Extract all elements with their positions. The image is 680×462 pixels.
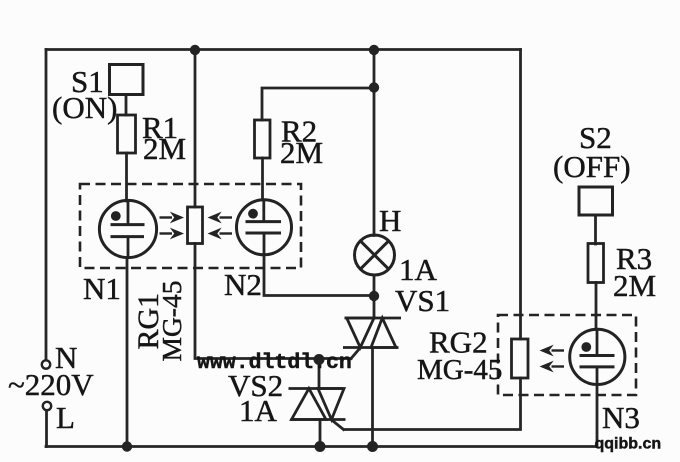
svg-text:N2: N2: [224, 267, 262, 302]
photoresistor RG2: [512, 339, 529, 378]
neon lamp N3: [570, 329, 625, 384]
wire R3 to N3: [595, 283, 598, 330]
svg-text:H: H: [379, 203, 401, 238]
node junction R2 wire: [369, 82, 379, 92]
wire left bus upper: [45, 50, 48, 361]
wire S1 to R1: [125, 95, 128, 116]
svg-text:MG-45: MG-45: [417, 354, 502, 386]
svg-text:qqibb.cn: qqibb.cn: [595, 436, 662, 453]
svg-text:MG-45: MG-45: [156, 281, 187, 362]
node junction bottom VS1: [367, 441, 378, 452]
wire R2 to N2: [261, 158, 264, 200]
triac VS2: [289, 389, 346, 420]
svg-text:1A: 1A: [399, 252, 438, 287]
terminal L circle: [43, 402, 51, 410]
wire right branch vertical: [519, 50, 522, 340]
resistor R2: [255, 120, 271, 158]
arrows N1 to RG1: [160, 212, 185, 240]
node junction top middle: [369, 45, 379, 55]
switch S1 box: [110, 65, 144, 95]
wire RG1 upper: [194, 50, 197, 208]
wire middle vertical upper: [373, 50, 376, 236]
svg-text:2M: 2M: [143, 131, 186, 166]
wire RG2 bottom lead: [344, 378, 520, 430]
resistor R3: [588, 244, 604, 283]
svg-text:2M: 2M: [613, 268, 656, 303]
arrows N3 to RG2: [540, 345, 565, 373]
neon lamp N1: [99, 200, 156, 257]
wire VS1 bottom lead: [371, 348, 374, 447]
switch S2 box: [579, 187, 613, 215]
svg-text:~220V: ~220V: [8, 367, 94, 402]
terminal N circle: [42, 360, 50, 368]
wire top bus: [46, 48, 521, 51]
resistor R1: [118, 115, 136, 153]
arrows N2 to RG1: [208, 212, 233, 240]
wire lamp to VS1: [373, 275, 376, 318]
wire R2 top: [262, 88, 374, 120]
wire N3 bottom lead: [596, 385, 599, 447]
wire VS2 gate diagonal: [331, 420, 343, 430]
svg-text:1A: 1A: [239, 393, 278, 428]
svg-text:L: L: [56, 400, 75, 435]
node junction bottom VS2: [315, 441, 326, 452]
svg-text:N3: N3: [602, 400, 640, 435]
svg-text:(ON): (ON): [52, 90, 117, 125]
neon lamp N2: [237, 200, 292, 255]
wire node to VS2 top: [318, 359, 321, 389]
wire VS1 gate diagonal: [351, 348, 361, 359]
wire left bus lower: [45, 410, 48, 447]
photoresistor RG1: [188, 207, 203, 244]
node junction N2 wire: [369, 291, 379, 301]
wire R1 to N1: [125, 153, 128, 201]
node junction top RG1: [190, 45, 200, 55]
wire S2 to R3: [594, 215, 597, 244]
svg-text:(OFF): (OFF): [553, 149, 631, 184]
wire N2 bottom lead: [264, 255, 374, 296]
svg-text:www.dltdl.cn: www.dltdl.cn: [197, 351, 352, 375]
svg-text:N1: N1: [83, 271, 121, 306]
wire bottom bus: [46, 445, 597, 448]
wire VS2 bottom lead: [319, 420, 322, 447]
svg-text:2M: 2M: [280, 135, 323, 170]
dashed box RG1 optocoupler: [80, 184, 301, 268]
wire RG1 lower to VS1 gate: [195, 244, 351, 359]
triac VS1: [343, 318, 401, 348]
svg-text:VS1: VS1: [395, 283, 450, 318]
dashed box RG2 optocoupler: [498, 315, 636, 395]
wire N1 bottom lead: [126, 258, 129, 447]
node junction bottom N1: [122, 441, 132, 451]
lamp H: [355, 235, 395, 275]
node junction VS2 gate net: [314, 354, 325, 365]
